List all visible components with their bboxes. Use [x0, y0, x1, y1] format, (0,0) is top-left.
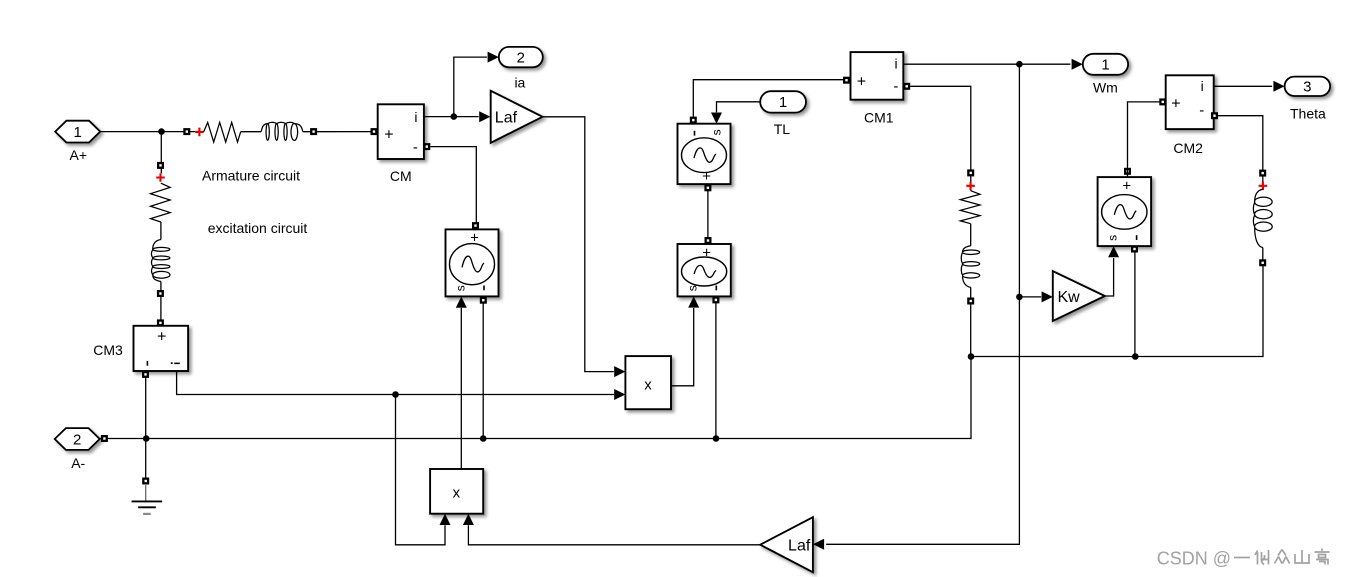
svg-text:CSDN @: CSDN @	[1157, 549, 1231, 569]
svg-text:1: 1	[1101, 57, 1109, 74]
svg-text:+: +	[1122, 177, 1131, 194]
resistor Ra (armature)	[204, 122, 241, 142]
label CM	[390, 168, 412, 184]
wire Laf2 output to X2 input 2	[468, 525, 760, 545]
port marker after La	[310, 128, 317, 135]
red polarity + of armature resistor	[195, 128, 204, 137]
arrow into outport Wm	[1072, 59, 1083, 70]
inductor Lf (excitation)	[151, 240, 170, 282]
current measurement CM	[378, 104, 424, 159]
svg-text:Armature circuit: Armature circuit	[202, 168, 300, 184]
arrow X2 input 1	[440, 514, 451, 525]
arrow into outport Theta	[1273, 81, 1284, 92]
label Theta	[1290, 105, 1326, 121]
label Wm	[1093, 79, 1118, 95]
product block X1	[625, 356, 671, 409]
svg-text:+: +	[1171, 95, 1180, 112]
svg-text:2: 2	[517, 49, 525, 66]
svg-text:A+: A+	[70, 147, 88, 163]
wire E4 - down to bottom bus	[1134, 252, 1136, 356]
arrow into gain Laf2	[813, 539, 824, 550]
label CM1	[864, 110, 894, 126]
port marker CM - output	[423, 143, 430, 150]
wire X1 output to E3 s input	[671, 308, 694, 386]
label Armature circuit	[202, 168, 300, 184]
wire CM1 - output to R1 branch	[910, 86, 971, 190]
wire L1 down to bottom bus	[970, 287, 972, 356]
arrow into gain Kw	[1042, 291, 1053, 302]
controlled source E3	[678, 244, 731, 296]
svg-text:+: +	[384, 126, 393, 143]
port marker E1 + top	[472, 222, 479, 229]
wire ia branch to outport 2	[454, 57, 487, 117]
svg-text:+: +	[470, 230, 479, 247]
svg-text:s: s	[454, 285, 468, 291]
svg-text:+: +	[157, 329, 166, 346]
svg-text:-: -	[1199, 102, 1204, 119]
wire TL port to E2 s	[717, 102, 761, 112]
input port 2 (A-)	[55, 428, 100, 450]
port marker top of excitation branch	[157, 162, 164, 169]
svg-text:A-: A-	[71, 455, 85, 471]
wire Kw output to E4 s input	[1105, 258, 1114, 296]
port marker top of R1	[967, 169, 974, 176]
wire Ra to La	[241, 131, 262, 133]
wire L2 to bottom bus corner	[1262, 248, 1264, 266]
current measurement CM1	[851, 52, 904, 100]
wire E1 - down to A- bus	[482, 304, 484, 439]
wire R1 to L1	[970, 224, 972, 246]
port marker bottom of L1	[967, 298, 974, 305]
port marker E3 - bottom	[712, 296, 719, 303]
wire E4 + up to CM2 +	[1128, 102, 1165, 177]
junction ia	[451, 113, 458, 120]
svg-text:+: +	[857, 74, 866, 91]
svg-text:CM2: CM2	[1173, 140, 1203, 156]
resistor Rf (excitation)	[150, 183, 170, 222]
arrow X1 input 1	[614, 366, 625, 377]
port marker bottom of Lf	[157, 290, 164, 297]
wire CM2 - output to L2	[1218, 116, 1263, 190]
port marker top of L2	[1259, 170, 1266, 177]
svg-text:i: i	[894, 56, 897, 72]
svg-text:+: +	[702, 244, 711, 261]
port marker E4 - bottom	[1131, 246, 1138, 253]
gain Laf2	[760, 517, 813, 572]
port marker CM1 - output	[903, 83, 910, 90]
wire X2 output up to E1 s input	[460, 308, 462, 469]
output port 2 (ia)	[499, 47, 543, 67]
port marker bottom of L2	[1259, 259, 1266, 266]
svg-text:i: i	[1201, 78, 1204, 94]
junction E4 minus on bottom bus	[1132, 353, 1139, 360]
svg-text:Laf: Laf	[788, 537, 811, 554]
inductor L2	[1253, 189, 1272, 247]
svg-text:Kw: Kw	[1058, 289, 1081, 306]
label TL	[774, 121, 791, 137]
svg-text:i: i	[414, 109, 417, 125]
svg-text:1: 1	[74, 124, 82, 141]
wire CM3 i output to product X1	[177, 371, 615, 395]
arrow X2 input 2	[463, 514, 474, 525]
port marker E1 - bottom	[480, 297, 487, 304]
junction omega / Kw tap	[1016, 294, 1023, 301]
controlled voltage source E1	[446, 229, 499, 296]
wire A- node to ground	[145, 439, 147, 485]
svg-text:CM1: CM1	[864, 110, 894, 126]
svg-text:-: -	[413, 139, 418, 156]
wire E2 + to E3 +	[707, 189, 709, 242]
port marker E4 + top	[1124, 168, 1131, 175]
port marker E2 - top left	[690, 117, 697, 124]
port marker CM2 + input	[1159, 98, 1166, 105]
wire CM3 - port down to A- line	[145, 371, 147, 439]
port marker CM1 + input	[843, 77, 850, 84]
controlled source E2 (torque, flipped)	[678, 124, 731, 185]
svg-text:Theta: Theta	[1290, 105, 1326, 121]
svg-text:s: s	[710, 129, 724, 135]
ground	[132, 485, 163, 514]
wire CM1 i output to Wm	[904, 63, 1071, 65]
svg-text:s: s	[1106, 235, 1120, 241]
port marker E2 + bottom	[704, 184, 711, 191]
wire Kw tap	[1019, 296, 1041, 298]
svg-text:x: x	[453, 485, 461, 502]
wire Rf to Lf	[160, 222, 162, 240]
controlled voltage source E4	[1098, 177, 1152, 246]
label CM3	[93, 342, 123, 358]
label A+	[70, 147, 88, 163]
wire La to CM + input	[303, 131, 376, 133]
svg-text:TL: TL	[774, 121, 791, 137]
product block X2	[430, 469, 483, 514]
arrow into E4 s input	[1108, 246, 1119, 257]
output port 3 (Theta)	[1285, 77, 1331, 96]
node on A- line below CM3	[143, 435, 150, 442]
port marker ground	[142, 478, 149, 485]
svg-text:ia: ia	[514, 75, 525, 91]
inductor La (armature)	[261, 122, 303, 140]
input port 1 (A+)	[55, 121, 100, 143]
wire A+ from port 1 to node A	[100, 131, 195, 133]
inductor L1	[961, 246, 980, 288]
current measurement CM3	[134, 326, 189, 371]
wire A- bus	[100, 263, 1263, 439]
port marker on A+ wire	[183, 128, 190, 135]
gain Laf	[491, 91, 543, 143]
port marker CM3 + port	[157, 319, 164, 326]
arrow into E3 s input	[688, 296, 699, 307]
node B junction on CM3 output	[392, 391, 399, 398]
junction A- / E1 minus	[480, 435, 487, 442]
junction A- riser / R1 branch	[968, 353, 975, 360]
input port TL	[760, 91, 806, 112]
label CM2	[1173, 140, 1203, 156]
svg-text:+: +	[702, 168, 711, 185]
svg-text:2: 2	[73, 431, 81, 448]
red polarity + of L2	[1259, 182, 1268, 191]
svg-text:x: x	[644, 377, 652, 394]
svg-text:s: s	[686, 285, 700, 291]
wire CM - output to source E1	[430, 147, 476, 230]
svg-text:-: -	[893, 78, 898, 95]
port marker CM + input	[371, 128, 378, 135]
watermark CSDN	[1157, 549, 1330, 569]
wire CM i output to Laf	[424, 116, 479, 118]
arrow X1 input 2	[614, 389, 625, 400]
arrow into E1 s input	[456, 297, 467, 308]
red polarity + of excitation resistor	[156, 173, 165, 182]
port marker E3 + top	[705, 237, 712, 244]
wire E2 - up and right to CM1 +	[693, 80, 848, 117]
label ia	[514, 75, 525, 91]
red polarity + of R1	[966, 182, 975, 191]
output port 1 (Wm)	[1083, 54, 1128, 75]
wire CM2 i output to Theta	[1214, 85, 1272, 87]
wire E3 - down to A- bus	[715, 303, 717, 439]
wire Laf output to product X1 input 1	[543, 117, 614, 372]
svg-text:CM: CM	[390, 168, 412, 184]
svg-text:3: 3	[1303, 79, 1311, 96]
node A junction on A+ line	[158, 128, 165, 135]
port marker CM3 - port	[142, 371, 149, 378]
svg-text:Laf: Laf	[495, 110, 518, 127]
junction A- / E3 minus	[713, 435, 720, 442]
port marker CM2 - output	[1211, 112, 1218, 119]
svg-text:Wm: Wm	[1093, 79, 1118, 95]
wire Lf to CM3 + port	[160, 282, 162, 328]
gain Kw	[1053, 271, 1105, 321]
arrow into gain Laf	[479, 111, 490, 122]
svg-text:1: 1	[779, 94, 787, 111]
label excitation circuit	[208, 220, 308, 236]
arrow into E2 s input	[711, 113, 722, 124]
svg-text:excitation circuit: excitation circuit	[208, 220, 308, 236]
wire omega line down to Laf2	[826, 64, 1019, 544]
current measurement CM2	[1166, 75, 1214, 129]
junction Wm	[1016, 61, 1023, 68]
svg-text:CM3: CM3	[93, 342, 123, 358]
port marker at port 2	[101, 435, 108, 442]
resistor R1	[960, 191, 980, 224]
arrow into outport 2	[488, 52, 499, 63]
wire node B down to product X2 input 1	[396, 395, 446, 545]
wire node A down to Rf	[160, 132, 162, 174]
label A-	[71, 455, 85, 471]
